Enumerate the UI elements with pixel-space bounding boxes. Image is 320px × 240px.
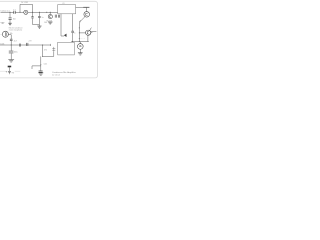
node I xyxy=(79,41,80,42)
capacitor C10 (series on bus) xyxy=(27,43,28,46)
ground (C11) xyxy=(8,60,14,62)
connector ticks left of U2 xyxy=(52,47,55,52)
capacitor C3 (on branch x=32.5) xyxy=(31,17,33,18)
node A (junction on input bus) xyxy=(9,12,10,13)
transistor Q3 xyxy=(84,12,90,18)
svg-text:4u7: 4u7 xyxy=(14,40,17,42)
earphone LS1 (cone) xyxy=(64,34,67,37)
node N (bus junction) xyxy=(46,12,47,13)
capacitor C6 (below U1, pair 2) xyxy=(58,15,59,18)
wire: U1 pin down x=72.6 xyxy=(72,14,74,42)
node J xyxy=(11,44,12,45)
node D xyxy=(39,12,40,13)
transistor Q1 xyxy=(49,12,51,14)
wire: speaker bottom lead xyxy=(79,49,81,52)
speaker SP1 (circle) xyxy=(77,44,83,50)
capacitor C5 (below U1, pair 1) xyxy=(55,15,56,18)
wire: mic to branch xyxy=(8,35,11,45)
battery B1 plates xyxy=(8,72,11,73)
svg-text:rev 1.0 sch: rev 1.0 sch xyxy=(52,75,60,77)
capacitor C9 (series on bus) xyxy=(19,44,20,47)
svg-text:10k: 10k xyxy=(10,33,13,35)
node E (Q1 collector tap) xyxy=(50,12,51,13)
svg-text:U1: U1 xyxy=(62,3,64,5)
node K xyxy=(42,44,43,45)
svg-text:1k 1.5M: 1k 1.5M xyxy=(21,2,28,4)
node L xyxy=(42,56,43,57)
ground (Q1 emitter) xyxy=(48,22,53,24)
wire: Q3 emitter diagonal to left rail xyxy=(79,16,85,22)
ground (input) xyxy=(8,23,12,25)
svg-text:0.1: 0.1 xyxy=(13,10,16,12)
wire: feedback loop over T1 xyxy=(20,4,33,12)
wire: small stub left edge xyxy=(0,21,5,23)
wire: supply bus y=45 xyxy=(0,44,50,46)
capacitor C2 (shunt) xyxy=(9,18,12,19)
svg-text:100u: 100u xyxy=(14,52,18,54)
wire: shunt cap branch x=11.2 below bus xyxy=(10,45,12,59)
capacitor C7 (on x=72.6) xyxy=(71,31,74,32)
wire: speaker top lead xyxy=(79,42,81,44)
wire: Q3 collector lead xyxy=(86,8,88,12)
svg-text:1u: 1u xyxy=(74,32,76,34)
battery B1 top bar xyxy=(8,66,12,68)
wire: down from node A xyxy=(9,12,11,23)
label: small mark left edge xyxy=(2,22,4,24)
node C xyxy=(32,12,33,13)
node H xyxy=(72,41,73,42)
node M xyxy=(40,64,41,65)
resistor R (thick segment near Q3) xyxy=(83,6,89,8)
capacitor C1 (series, on input bus) xyxy=(14,11,15,14)
capacitor C11 (electrolytic) xyxy=(9,51,14,53)
svg-text:47k: 47k xyxy=(44,50,47,52)
wire: main input bus y=12.3 xyxy=(1,11,58,13)
wire: divider branch x=40.8 xyxy=(41,45,43,71)
wire: Q2 stub right xyxy=(90,30,96,32)
wire: faint dotted segment near speaker xyxy=(80,37,85,39)
module U2 (box lower) xyxy=(58,42,75,55)
transistor Q2 xyxy=(86,30,91,35)
wire: right rail x=79.3 xyxy=(78,22,80,41)
wire: faint stub left of battery xyxy=(0,70,20,72)
wire: U1 output top right y=7.3 xyxy=(76,6,87,8)
op-amp module U1 (box) xyxy=(58,5,76,14)
wire: end tick of bus xyxy=(49,44,51,46)
ground (bottom middle) xyxy=(38,73,43,75)
capacitor C8 (mic branch) xyxy=(10,39,13,40)
wire: U1 pin down x=61 to earphone xyxy=(61,14,64,36)
wire: branch down from node C xyxy=(33,12,40,24)
svg-text:10k: 10k xyxy=(44,22,47,24)
svg-text:Condenser Mic Amplifier: Condenser Mic Amplifier xyxy=(52,71,76,74)
ground G2 xyxy=(37,26,41,28)
wire: bus y=41.6 xyxy=(71,41,89,43)
wire: stub bracket xyxy=(32,66,41,69)
wire: Q2 emitter down xyxy=(87,35,89,41)
wire: down from node D xyxy=(38,12,40,26)
wire: battery lead xyxy=(8,67,10,71)
node G xyxy=(79,38,80,39)
svg-text:0.01: 0.01 xyxy=(44,63,48,65)
node B xyxy=(19,12,20,13)
node F xyxy=(79,27,80,28)
svg-text:1u: 1u xyxy=(42,17,44,19)
wire: Q2 base lead xyxy=(79,32,85,34)
wire: Q2 emitter arrow xyxy=(90,32,92,33)
capacitor C4 xyxy=(38,16,40,17)
card border frame xyxy=(0,1,98,78)
capacitor C12 (dark plates) xyxy=(39,71,43,72)
svg-text:10n: 10n xyxy=(13,19,16,21)
wire: Q2 collector diagonal up right xyxy=(89,28,91,31)
microphone MIC1 xyxy=(2,31,8,37)
transistor T1 (inline circle on bus) xyxy=(24,10,28,14)
ground (speaker) xyxy=(78,53,83,55)
